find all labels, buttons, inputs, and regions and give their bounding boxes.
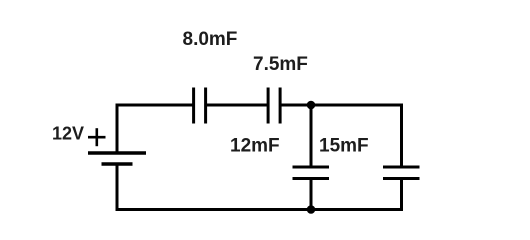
capacitor C2 7.5mF (series, right plate) [279, 88, 282, 124]
svg-text:15mF: 15mF [319, 135, 369, 156]
wire: right branch upper vertical [400, 104, 403, 167]
capacitor C4 (right parallel, bottom plate) [383, 177, 420, 180]
battery V1 12V negative plate (short) [102, 162, 133, 166]
wire: top right horizontal segment [281, 104, 403, 107]
capacitor C1 8.0mF (series, left plate) [192, 88, 195, 124]
svg-text:12V: 12V [52, 123, 84, 143]
wire: middle branch lower vertical [310, 180, 313, 210]
battery polarity plus sign [88, 128, 106, 146]
wire: left vertical from battery to bottom wire [116, 165, 119, 211]
capacitor C4 (right parallel, top plate) [383, 166, 420, 169]
wire: bottom horizontal [116, 208, 404, 211]
capacitor C1 8.0mF (series, right plate) [204, 88, 207, 124]
capacitor C3 15mF (bottom plate) [293, 177, 330, 180]
capacitor C3 15mF (top plate) [293, 166, 330, 169]
svg-text:12mF: 12mF [230, 135, 280, 156]
wire: left vertical from top wire to battery [116, 104, 119, 153]
svg-text:8.0mF: 8.0mF [183, 29, 238, 50]
wire: right branch lower vertical [400, 180, 403, 212]
svg-text:7.5mF: 7.5mF [253, 54, 308, 75]
wire: top left horizontal segment [116, 104, 193, 107]
wire: middle branch upper vertical [310, 105, 313, 166]
battery V1 12V positive plate (long) [88, 151, 146, 155]
node B (bottom junction dot) [307, 205, 316, 214]
capacitor C2 7.5mF (series, left plate) [267, 88, 270, 124]
wire: top middle horizontal segment [207, 104, 267, 107]
node A (top junction dot) [307, 101, 316, 110]
